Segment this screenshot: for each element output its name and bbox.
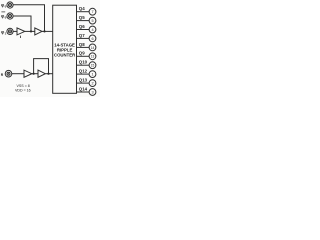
svg-text:13: 13: [91, 55, 95, 59]
svg-text:Q7: Q7: [79, 33, 85, 38]
svg-text:2: 2: [91, 82, 93, 86]
svg-text:Q10: Q10: [79, 60, 88, 65]
svg-text:7: 7: [91, 10, 93, 14]
svg-text:Q12: Q12: [79, 69, 88, 74]
svg-text:5: 5: [91, 19, 93, 23]
svg-text:4: 4: [91, 28, 93, 32]
svg-text:Q13: Q13: [79, 78, 88, 83]
svg-text:1: 1: [91, 73, 93, 77]
svg-text:VSS = 8: VSS = 8: [17, 84, 30, 88]
svg-text:14: 14: [91, 46, 95, 50]
svg-text:15: 15: [91, 64, 95, 68]
svg-text:COUNTER: COUNTER: [54, 53, 76, 58]
svg-text:Q9: Q9: [79, 51, 85, 56]
svg-text:Q8: Q8: [79, 42, 85, 47]
svg-text:6: 6: [91, 37, 93, 41]
svg-text:Q14: Q14: [79, 86, 88, 91]
svg-text:3: 3: [91, 90, 93, 94]
svg-text:Q4: Q4: [79, 6, 85, 11]
svg-text:Q5: Q5: [79, 15, 85, 20]
svg-text:VDD = 16: VDD = 16: [15, 89, 31, 93]
svg-text:Q6: Q6: [79, 24, 85, 29]
